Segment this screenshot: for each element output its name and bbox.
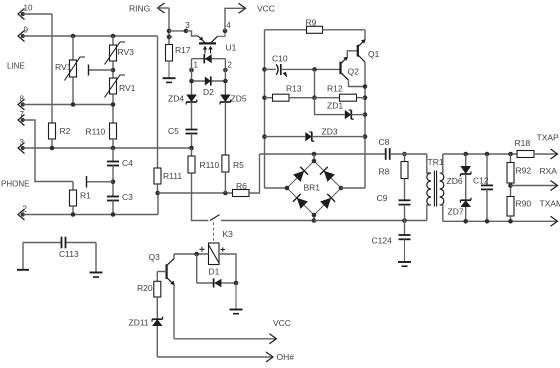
wire R110 second bottom xyxy=(112,139,114,148)
svg-text:C3: C3 xyxy=(122,192,133,202)
node VCC arrow top xyxy=(239,3,246,13)
svg-text:LINE: LINE xyxy=(7,62,25,71)
wire R2 to pin3 row xyxy=(51,139,53,148)
junction dot C12 top xyxy=(485,152,490,157)
wire secondary bottom row xyxy=(443,220,558,222)
node VCC arrow bottom xyxy=(269,334,276,344)
svg-text:10: 10 xyxy=(24,4,33,13)
svg-text:1: 1 xyxy=(194,61,199,70)
wire link C10 R13 xyxy=(314,69,316,97)
node TXAP arrow xyxy=(551,149,558,159)
node U1 pin 3 xyxy=(184,29,189,34)
op-amp U1 phototransistor xyxy=(199,42,216,44)
node pin 10 xyxy=(18,9,25,20)
transistor Q1 xyxy=(357,45,359,57)
svg-text:R6: R6 xyxy=(236,181,247,191)
resistor R92 xyxy=(510,154,512,163)
wire RV1 bottom xyxy=(72,77,74,105)
svg-text:R92: R92 xyxy=(516,166,532,176)
wire mid bus to R6 xyxy=(158,192,233,194)
svg-text:ZD11: ZD11 xyxy=(129,318,149,328)
resistor R12 xyxy=(315,97,340,99)
ground chassis left xyxy=(17,269,29,271)
wire C3 bottom xyxy=(112,201,114,215)
bridge rectifier BR1 xyxy=(313,154,315,161)
plus mark left xyxy=(199,248,204,250)
zener ZD1 xyxy=(345,110,352,119)
svg-text:R18: R18 xyxy=(515,138,531,148)
resistor R110 second xyxy=(110,123,117,139)
svg-text:VCC: VCC xyxy=(257,4,275,14)
resistor R18 xyxy=(517,151,534,158)
node pin 3 xyxy=(18,143,25,154)
svg-text:Q2: Q2 xyxy=(348,67,360,77)
wire C12 bottom xyxy=(486,189,488,221)
svg-text:D2: D2 xyxy=(203,87,214,97)
wire R5 bottom xyxy=(224,172,226,193)
svg-text:9: 9 xyxy=(24,26,29,35)
wire C10 to Q2 base xyxy=(281,68,341,70)
svg-text:RV1: RV1 xyxy=(55,62,72,72)
svg-text:PHONE: PHONE xyxy=(1,180,29,189)
resistor R8 xyxy=(404,154,406,162)
junction dot R2 bottom xyxy=(50,146,55,151)
wire mid left bus xyxy=(264,30,266,188)
wire R6 to bridge riser xyxy=(249,154,260,193)
junction dot C3 bottom xyxy=(111,212,116,217)
capacitor C10 xyxy=(265,68,276,70)
junction dot RXA node xyxy=(508,183,513,188)
wire ZD11 to OH row xyxy=(156,326,158,357)
junction dot R90 bottom xyxy=(508,219,513,224)
svg-text:RXA: RXA xyxy=(540,166,558,176)
svg-text:C8: C8 xyxy=(379,137,390,147)
stub electrode to varistor node xyxy=(89,69,114,71)
zener ZD6 xyxy=(465,154,467,166)
junction dot bridge bottom wire xyxy=(312,218,317,223)
wire C4 to C3 xyxy=(112,166,114,197)
svg-text:RING: RING xyxy=(129,4,150,14)
svg-text:Q1: Q1 xyxy=(368,49,380,59)
diode D2 xyxy=(205,76,211,85)
svg-text:R9: R9 xyxy=(306,18,317,28)
wire R111 bottom xyxy=(157,184,159,193)
svg-text:C12: C12 xyxy=(473,176,489,186)
wire ZD7 bottom xyxy=(465,207,467,221)
node TXAM arrow xyxy=(551,216,558,226)
diode D1 xyxy=(197,282,214,284)
zener ZD5 xyxy=(220,95,231,103)
svg-text:ZD7: ZD7 xyxy=(448,207,464,217)
zener ZD11 xyxy=(152,319,163,326)
wire Q3 emitter down xyxy=(173,285,175,339)
svg-text:R1: R1 xyxy=(80,191,91,201)
capacitor C12 xyxy=(486,154,488,185)
junction dot ZD3 left xyxy=(262,134,267,139)
wire Q1 collector column xyxy=(364,62,366,188)
junction dot D1 right xyxy=(234,281,239,286)
svg-text:R20: R20 xyxy=(137,283,153,293)
svg-text:RV1: RV1 xyxy=(119,83,136,93)
junction dot ZD1 right xyxy=(363,112,368,117)
node pin 7 xyxy=(18,115,25,126)
svg-text:TXAP: TXAP xyxy=(537,133,560,143)
svg-text:OH#: OH# xyxy=(277,352,295,362)
junction dot R13-R12 xyxy=(312,95,317,100)
wire OH row xyxy=(157,356,273,358)
svg-text:ZD4: ZD4 xyxy=(168,94,184,104)
wire ZD3 row left xyxy=(265,136,306,138)
node pin 2 xyxy=(18,209,25,220)
capacitor C5 xyxy=(186,129,198,131)
resistor R6 xyxy=(233,190,250,197)
svg-text:C124: C124 xyxy=(372,236,393,246)
wire U1 pin1 column xyxy=(191,59,193,95)
junction dot Q2 collector xyxy=(363,84,368,89)
junction dot ring col upper xyxy=(167,29,172,34)
plus mark right xyxy=(221,249,225,251)
junction dot C10-R13 link top xyxy=(312,67,317,72)
junction dot C4-C3 xyxy=(111,180,116,185)
ground C124 xyxy=(404,239,406,262)
wire RING column down xyxy=(168,8,170,45)
svg-text:RV3: RV3 xyxy=(118,47,135,57)
wire RV1 column upper xyxy=(72,36,74,60)
svg-text:ZD1: ZD1 xyxy=(327,101,343,111)
zener ZD3 xyxy=(305,132,312,141)
wire pin4 to VCC xyxy=(225,8,246,31)
svg-text:K3: K3 xyxy=(223,229,234,239)
junction dot R5 bottom xyxy=(223,191,228,196)
junction dot R1 bottom xyxy=(71,212,76,217)
node U1 pin 2 xyxy=(223,68,228,73)
U1 light arrows xyxy=(204,48,206,54)
junction dot ZD6 top xyxy=(463,152,468,157)
svg-text:ZD6: ZD6 xyxy=(447,176,463,186)
svg-text:2: 2 xyxy=(227,61,232,70)
resistor R20 xyxy=(154,281,161,297)
ground R17 xyxy=(168,61,170,78)
svg-text:3: 3 xyxy=(185,21,190,30)
zener ZD7 xyxy=(460,200,471,207)
wire to U1 pin3 xyxy=(169,30,186,32)
svg-text:R110: R110 xyxy=(86,127,106,137)
wire ZD3 row right xyxy=(312,136,365,138)
wire ZD5 to R5 xyxy=(224,102,226,155)
wire D1 left leg xyxy=(196,254,198,283)
svg-text:Q3: Q3 xyxy=(149,252,161,262)
svg-text:C4: C4 xyxy=(122,158,133,168)
junction dot Q3 collector node xyxy=(194,252,199,257)
resistor R5 xyxy=(222,155,229,172)
varistor RV1 lower xyxy=(110,78,117,94)
wire bus to bridge left xyxy=(265,187,288,189)
resistor R111 xyxy=(154,168,161,184)
wire pin8 row xyxy=(23,104,113,106)
varistor RV3 xyxy=(110,45,117,61)
wire pin3 to phototransistor xyxy=(186,31,198,36)
wire bottom bus primary xyxy=(314,220,427,222)
switch K3 contact xyxy=(210,215,220,221)
wire secondary top row xyxy=(443,153,517,155)
junction dot pin8-RV1 xyxy=(71,102,76,107)
svg-text:R17: R17 xyxy=(175,45,191,55)
svg-text:R5: R5 xyxy=(233,160,244,170)
junction dot ZD7 bottom xyxy=(463,219,468,224)
wire bridge top row xyxy=(260,153,386,155)
node RXA arrow xyxy=(551,181,558,191)
resistor R90 xyxy=(507,197,514,217)
capacitor C4 xyxy=(112,148,114,162)
junction dot R13 left xyxy=(262,95,267,100)
wire RV3 to RV1 junction xyxy=(112,61,114,78)
junction dot RV1 top xyxy=(71,34,76,39)
svg-text:VCC: VCC xyxy=(273,318,291,328)
svg-text:R90: R90 xyxy=(516,199,532,209)
ground C113 right xyxy=(90,272,103,274)
wire pin9 row xyxy=(23,35,158,37)
svg-text:R2: R2 xyxy=(60,126,71,136)
svg-text:7: 7 xyxy=(20,110,25,119)
svg-text:R12: R12 xyxy=(327,84,343,94)
wire U1 pin2 column xyxy=(224,59,226,95)
svg-text:R111: R111 xyxy=(163,171,182,181)
node pin 9 xyxy=(18,31,25,42)
wire pin10 to bus xyxy=(23,13,52,15)
junction dot C12 bottom xyxy=(485,219,490,224)
transistor Q2 xyxy=(339,62,341,74)
resistor R1 xyxy=(72,182,74,191)
U1 LED xyxy=(192,58,226,60)
junction dot R12 right xyxy=(363,95,368,100)
junction dot C5-R110 xyxy=(189,146,194,151)
junction dot mid varistors xyxy=(111,68,116,73)
wire VCC row bottom xyxy=(174,338,276,340)
wire C9 bottom xyxy=(404,205,406,221)
wire R110 to switch xyxy=(192,173,209,221)
zener ZD4 xyxy=(186,95,197,103)
resistor R110 xyxy=(191,148,193,156)
junction dot bridge top wire xyxy=(312,152,317,157)
stub electrode to C4-C3 node xyxy=(87,181,114,183)
svg-text:C5: C5 xyxy=(168,126,179,136)
junction dot D2 left xyxy=(189,79,194,84)
node U1 pin 4 xyxy=(223,29,228,34)
wire R90 bottom xyxy=(510,216,512,221)
wire RING to column xyxy=(158,7,170,9)
svg-text:U1: U1 xyxy=(226,43,237,53)
wire K3 dashed link xyxy=(213,223,215,242)
wire C5 to node xyxy=(191,134,193,149)
wire RV3 top lead xyxy=(112,36,114,45)
wire D2 row xyxy=(192,80,226,82)
node OH# arrow xyxy=(266,352,273,362)
wire R92 to R90 xyxy=(510,183,512,197)
svg-text:TR1: TR1 xyxy=(428,157,444,167)
capacitor C124 xyxy=(404,221,406,236)
resistor R9 xyxy=(265,29,307,31)
wire R20 to ZD11 xyxy=(156,297,158,319)
wire R13 node to ZD1 xyxy=(315,98,345,115)
svg-text:4: 4 xyxy=(226,21,231,30)
resistor R17 xyxy=(166,45,173,62)
svg-text:C9: C9 xyxy=(377,193,388,203)
junction dot R8 top xyxy=(402,152,407,157)
svg-text:R13: R13 xyxy=(286,84,302,94)
junction dot RV3 top xyxy=(111,34,116,39)
svg-text:C113: C113 xyxy=(59,249,79,259)
svg-text:TXAM: TXAM xyxy=(540,199,560,209)
wire switch to bridge bottom xyxy=(221,220,314,222)
wire C8 to TR1 xyxy=(390,153,427,155)
wire RXA row xyxy=(511,185,558,187)
svg-text:8: 8 xyxy=(20,95,25,104)
wire coil left xyxy=(174,253,209,255)
svg-text:R8: R8 xyxy=(379,167,390,177)
wire R18 to TXAP xyxy=(534,153,558,155)
svg-text:R110: R110 xyxy=(200,160,220,170)
junction dot C10 left xyxy=(262,67,267,72)
relay coil K3 xyxy=(209,243,220,265)
svg-text:ZD3: ZD3 xyxy=(322,127,338,137)
node RING arrow xyxy=(158,3,165,13)
wire pin3 row xyxy=(23,147,192,149)
junction dot C124 top xyxy=(402,218,407,223)
junction dot ZD3 right xyxy=(363,134,368,139)
wire left bus x52 down to R2 xyxy=(51,14,53,123)
svg-text:D1: D1 xyxy=(209,267,220,277)
junction dot R111 bottom xyxy=(155,191,160,196)
junction dot D2 right xyxy=(223,79,228,84)
varistor RV1 xyxy=(70,60,77,77)
wire bridge right to column xyxy=(341,187,365,189)
wire R9 to Q1 emitter xyxy=(364,30,366,40)
wire C113 left drop xyxy=(22,243,24,270)
capacitor C3 xyxy=(107,196,119,198)
node U1 pin 1 xyxy=(189,68,194,73)
svg-text:2: 2 xyxy=(23,205,28,214)
junction dot ring col lower xyxy=(167,35,172,40)
resistor R13 xyxy=(265,97,273,99)
junction dot C4 top xyxy=(111,146,116,151)
resistor R2 xyxy=(49,123,56,139)
svg-text:3: 3 xyxy=(20,138,25,147)
capacitor C8 xyxy=(385,148,387,160)
wire ZD1 to column xyxy=(351,114,365,116)
svg-text:C10: C10 xyxy=(272,54,288,64)
ground D1 xyxy=(235,283,237,310)
wire ZD4 to C5 xyxy=(191,102,193,130)
svg-text:BR1: BR1 xyxy=(304,183,321,193)
svg-text:ZD5: ZD5 xyxy=(231,94,247,104)
wire RV1 lower bottom xyxy=(112,94,114,123)
capacitor C9 xyxy=(404,179,406,201)
junction dot pin8-RV1lower xyxy=(111,102,116,107)
wire pin2 row up to R111 node xyxy=(157,193,159,215)
wire R111 column xyxy=(157,36,159,168)
capacitor C113 xyxy=(23,242,62,244)
node pin 8 xyxy=(18,99,25,110)
wire coil right to D1 xyxy=(219,254,236,283)
wire ZD6 to ZD7 xyxy=(465,174,467,200)
wire pin2 row xyxy=(23,214,158,216)
junction dot R18 node xyxy=(508,152,513,157)
wire pin7 to PHONE xyxy=(23,120,73,182)
wire C113 right drop xyxy=(95,243,97,273)
wire R1 bottom xyxy=(72,206,74,215)
